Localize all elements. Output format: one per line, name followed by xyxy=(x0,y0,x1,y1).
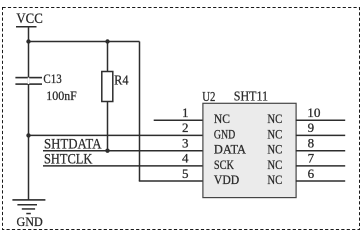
wire VDD feed vertical xyxy=(139,42,141,182)
svg-text:SCK: SCK xyxy=(214,157,235,172)
svg-text:NC: NC xyxy=(267,111,282,126)
capacitor C13 xyxy=(15,77,42,85)
svg-text:NC: NC xyxy=(267,142,282,157)
svg-text:SHTCLK: SHTCLK xyxy=(44,151,93,167)
ground xyxy=(12,199,45,214)
wire pin6 NC xyxy=(296,180,346,182)
svg-text:10: 10 xyxy=(307,105,320,120)
svg-text:C13: C13 xyxy=(43,71,61,86)
svg-text:GND: GND xyxy=(214,126,235,141)
svg-text:DATA: DATA xyxy=(214,142,247,157)
wire pin9 NC xyxy=(296,134,346,136)
svg-text:NC: NC xyxy=(267,157,282,172)
svg-text:NC: NC xyxy=(267,172,282,187)
svg-text:GND: GND xyxy=(17,214,43,229)
svg-text:5: 5 xyxy=(182,166,189,181)
svg-text:9: 9 xyxy=(308,120,315,135)
wire pin3 DATA xyxy=(43,150,203,152)
svg-text:6: 6 xyxy=(308,166,315,181)
svg-text:VDD: VDD xyxy=(214,172,239,187)
svg-text:8: 8 xyxy=(308,136,315,151)
wire pin8 NC xyxy=(296,150,346,152)
svg-text:7: 7 xyxy=(308,151,315,166)
chip U2 body xyxy=(203,103,296,197)
svg-text:1: 1 xyxy=(182,105,189,120)
svg-text:4: 4 xyxy=(182,151,189,166)
wire resistor top xyxy=(107,42,109,73)
wire pin7 NC xyxy=(296,165,346,167)
resistor R4 xyxy=(102,72,113,102)
junction at VCC rail left xyxy=(26,39,30,43)
power symbol VCC xyxy=(16,11,43,42)
wire pin1 NC xyxy=(154,119,203,121)
svg-text:SHT11: SHT11 xyxy=(234,90,268,105)
wire pin5 VDD horizontal xyxy=(139,180,203,182)
wire pin4 SCK xyxy=(43,165,203,167)
svg-text:U2: U2 xyxy=(202,90,215,105)
wire pin2 GND to ground rail xyxy=(29,134,204,136)
wire VCC rail horizontal xyxy=(29,41,140,43)
junction pin2 at ground rail xyxy=(26,133,30,137)
svg-text:2: 2 xyxy=(182,120,189,135)
svg-text:NC: NC xyxy=(214,111,230,126)
svg-text:VCC: VCC xyxy=(16,11,42,27)
wire resistor bottom xyxy=(107,102,109,151)
wire pin10 NC xyxy=(296,119,346,121)
svg-text:NC: NC xyxy=(267,126,282,141)
svg-text:R4: R4 xyxy=(114,74,128,89)
svg-text:100nF: 100nF xyxy=(46,88,77,103)
wire left rail vertical xyxy=(28,42,30,200)
svg-text:3: 3 xyxy=(182,136,189,151)
junction at resistor top xyxy=(105,39,109,43)
junction resistor to DATA wire xyxy=(105,149,109,153)
